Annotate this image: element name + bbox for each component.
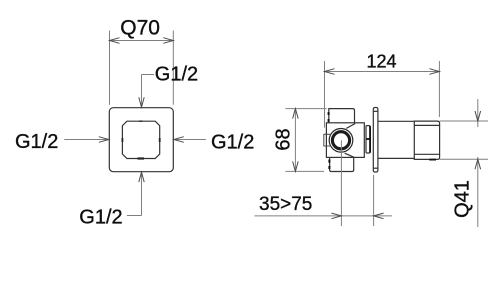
svg-text:Q70: Q70	[120, 17, 160, 40]
Q41 dimension	[440, 99, 488, 227]
svg-text:Q41: Q41	[452, 180, 474, 218]
svg-text:124: 124	[366, 52, 396, 72]
svg-text:68: 68	[273, 128, 295, 150]
G1/2 label right	[174, 132, 255, 154]
top inlet stub	[329, 109, 355, 123]
rear wall stub	[324, 134, 330, 146]
Q70 dimension	[110, 17, 174, 105]
svg-text:35>75: 35>75	[259, 194, 312, 215]
svg-text:G1/2: G1/2	[211, 132, 254, 154]
escutcheon plate	[373, 108, 378, 173]
svg-text:G1/2: G1/2	[15, 131, 58, 153]
68 dimension	[273, 109, 327, 172]
bonnet	[366, 126, 370, 153]
handle neck	[378, 121, 414, 158]
svg-text:G1/2: G1/2	[155, 63, 198, 85]
G1/2 label bottom	[79, 172, 144, 228]
35>75 dimension	[255, 140, 393, 226]
124 dimension	[325, 52, 440, 128]
G1/2 label top	[139, 63, 198, 107]
bottom outlet stub	[329, 157, 353, 171]
handle inner square (chamfered)	[122, 121, 159, 158]
svg-text:G1/2: G1/2	[79, 206, 122, 228]
handle block	[414, 121, 439, 160]
front port circle	[329, 129, 353, 153]
G1/2 label left	[15, 131, 109, 153]
valve body	[326, 123, 364, 158]
faceplate outer square	[109, 108, 173, 172]
